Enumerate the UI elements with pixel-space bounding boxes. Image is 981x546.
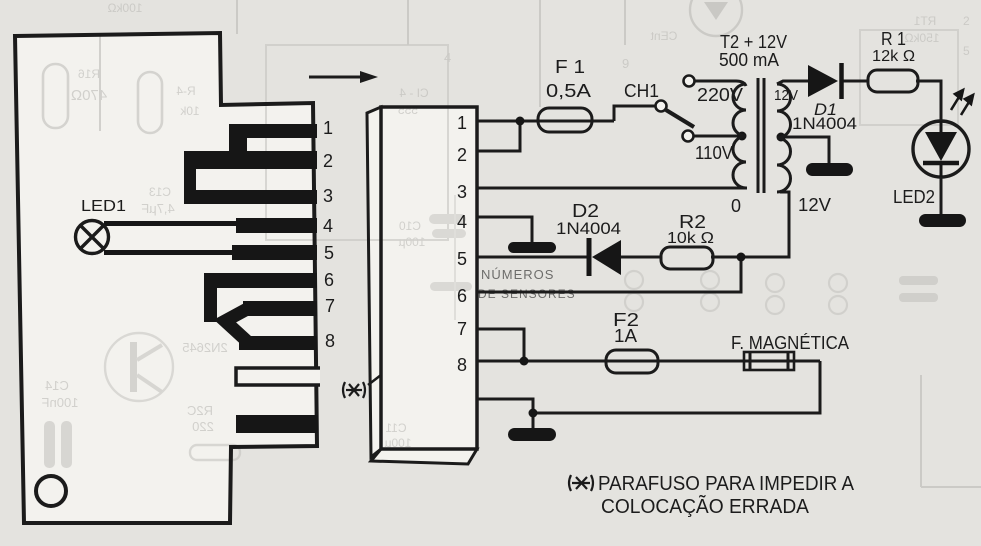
ground near pin4 (508, 242, 556, 253)
svg-text:LED2: LED2 (893, 187, 935, 207)
svg-text:5: 5 (457, 249, 467, 269)
LED2 light arrows (951, 90, 973, 115)
svg-text:COLOCAÇÃO ERRADA: COLOCAÇÃO ERRADA (601, 494, 810, 518)
svg-text:500 mA: 500 mA (719, 50, 779, 70)
wire pin3 to primary 0 (477, 187, 747, 190)
svg-text:R2C: R2C (187, 403, 213, 418)
connector keying mark (368, 375, 381, 385)
ground bottom return (508, 428, 556, 441)
transformer core (757, 78, 760, 193)
PCB card white fill (15, 33, 317, 523)
svg-text:T2 + 12V: T2 + 12V (720, 32, 787, 52)
LED2 (913, 121, 969, 177)
wire 110V contact to primary tap (694, 135, 742, 138)
junction dot pin7/pin8 (520, 357, 529, 366)
svg-text:C13: C13 (149, 185, 171, 199)
wire D1 to R1 (842, 80, 868, 83)
PCB trace finger 1 (229, 124, 317, 169)
svg-text:12V: 12V (774, 87, 798, 104)
PCB card outline (15, 33, 317, 523)
svg-text:5: 5 (324, 243, 334, 263)
svg-text:C11: C11 (385, 421, 406, 435)
svg-text:10k Ω: 10k Ω (667, 230, 714, 247)
svg-text:4: 4 (444, 50, 451, 65)
wire F1 to CH1 (614, 106, 655, 121)
wire LED1 anode to finger 4 (104, 221, 238, 226)
resistor R1 (868, 70, 918, 92)
fuse F2 (606, 350, 658, 373)
finger number labels 1-8 (323, 118, 335, 351)
svg-text:8: 8 (457, 355, 467, 375)
svg-text:F 1: F 1 (555, 57, 585, 77)
svg-text:12V: 12V (798, 195, 831, 215)
svg-text:1A: 1A (614, 326, 637, 346)
svg-text:6: 6 (457, 286, 467, 306)
wire pin7 down to pin8 (477, 329, 524, 361)
PCB trace finger 4 (236, 218, 317, 233)
svg-text:LED1: LED1 (81, 198, 126, 215)
svg-text:100nF: 100nF (42, 395, 79, 410)
svg-text:DE SENSORES: DE SENSORES (478, 287, 576, 301)
junction dot secondary tap (777, 133, 786, 142)
svg-text:5: 5 (963, 44, 970, 58)
ground below LED2 (919, 214, 966, 227)
svg-text:100µ: 100µ (398, 235, 425, 249)
edge connector front face (381, 107, 477, 449)
wire secondary centre tap to ground (781, 137, 829, 164)
svg-text:D2: D2 (572, 201, 599, 221)
svg-text:100kΩ: 100kΩ (107, 1, 142, 15)
svg-text:2: 2 (963, 14, 970, 28)
edge connector side face (367, 107, 381, 457)
insertion arrow (309, 71, 378, 83)
svg-text:NÚMEROS: NÚMEROS (481, 267, 554, 282)
svg-text:1: 1 (323, 118, 333, 138)
svg-text:470Ω: 470Ω (71, 87, 107, 104)
svg-text:1N4004: 1N4004 (556, 220, 621, 238)
PCB trace finger 6 (204, 273, 317, 322)
svg-text:8: 8 (325, 331, 335, 351)
PCB trace finger 8 (239, 336, 317, 350)
note line 1 (569, 473, 855, 495)
F magnetica symbol (744, 352, 794, 370)
svg-text:7: 7 (457, 319, 467, 339)
mounting hole (36, 476, 66, 506)
svg-text:1: 1 (457, 113, 467, 133)
svg-text:RT1: RT1 (913, 14, 936, 28)
svg-text:4: 4 (323, 216, 333, 236)
wire R1 to LED2 (916, 81, 941, 121)
wire LED1 cathode to finger 5 (104, 250, 234, 255)
wire pin4 to ground (477, 217, 532, 243)
wire LED2 to ground (940, 177, 943, 215)
wire F magnetica return loop (477, 361, 820, 413)
svg-text:9: 9 (622, 56, 629, 71)
wire R2 to secondary 12V (711, 192, 789, 257)
connector white fills (367, 107, 381, 457)
wire 220V contact to primary (694, 81, 746, 86)
svg-text:4,7µF: 4,7µF (141, 201, 175, 216)
svg-text:110V: 110V (695, 143, 733, 163)
svg-text:CH1: CH1 (624, 81, 659, 101)
svg-text:PARAFUSO PARA IMPEDIR A: PARAFUSO PARA IMPEDIR A (598, 473, 855, 495)
svg-text:555: 555 (398, 103, 418, 117)
PCB trace finger 5 (232, 245, 317, 260)
switch CH1 (656, 76, 695, 142)
wire pin1 to F1 (477, 120, 614, 123)
svg-text:10k: 10k (179, 104, 199, 118)
svg-text:C14: C14 (45, 378, 69, 393)
svg-text:2N2645: 2N2645 (182, 340, 228, 355)
svg-text:1N4004: 1N4004 (792, 115, 857, 133)
svg-text:F. MAGNÉTICA: F. MAGNÉTICA (731, 333, 849, 353)
PCB trace below slot (236, 415, 318, 433)
wire pin6 to junction (477, 257, 741, 292)
diode D1 (808, 63, 842, 99)
svg-text:3: 3 (323, 186, 333, 206)
keying slot (236, 367, 320, 386)
diode D2 (589, 238, 621, 276)
junction dot R2 output (737, 253, 746, 262)
wire D2 to R2 (621, 256, 661, 259)
svg-text:3: 3 (457, 182, 467, 202)
svg-text:4: 4 (457, 212, 467, 232)
wire secondary top to D1 (777, 81, 808, 84)
junction dot primary tap (738, 132, 747, 141)
svg-text:150kΩ: 150kΩ (904, 31, 939, 45)
resistor R2 (661, 247, 713, 269)
svg-text:C10: C10 (399, 219, 421, 233)
junction dot bottom return (529, 409, 538, 418)
svg-text:7: 7 (325, 296, 335, 316)
svg-text:CI - 4: CI - 4 (399, 86, 429, 100)
svg-text:CEnt: CEnt (650, 29, 677, 43)
wire pin5 to D2 (477, 256, 589, 259)
keying screw symbol (343, 382, 365, 398)
wire pin8 to F2 (477, 360, 820, 363)
svg-text:12k Ω: 12k Ω (872, 48, 915, 65)
wire pin2 up to pin1 (477, 121, 520, 151)
connector pin number labels (457, 113, 467, 375)
PCB trace finger 2 (184, 151, 317, 169)
PCB trace finger 3 (184, 151, 317, 204)
fuse F1 (538, 108, 592, 132)
svg-text:R-4: R-4 (176, 84, 196, 98)
wire ground stub bottom (532, 413, 535, 428)
edge connector bottom face (371, 449, 477, 464)
svg-text:R16: R16 (78, 67, 100, 81)
lamp LED1 (76, 221, 109, 254)
svg-text:220: 220 (192, 419, 214, 434)
svg-text:R2: R2 (679, 212, 706, 232)
svg-text:6: 6 (324, 270, 334, 290)
PCB trace finger 7 with chevron (225, 301, 317, 343)
svg-text:2: 2 (457, 145, 467, 165)
transformer T2 secondary winding (777, 84, 791, 192)
svg-text:0,5A: 0,5A (546, 81, 591, 101)
transformer T2 primary winding (733, 84, 746, 188)
ground near secondary centre tap (806, 163, 853, 176)
junction dot pin1/pin2 (516, 117, 525, 126)
wires right schematic (477, 81, 941, 428)
svg-text:R 1: R 1 (881, 29, 906, 49)
svg-text:0: 0 (731, 196, 741, 216)
svg-text:2: 2 (323, 151, 333, 171)
